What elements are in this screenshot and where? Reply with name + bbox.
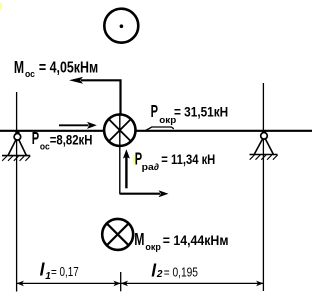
svg-text:ос: ос (25, 69, 35, 79)
svg-text:2: 2 (156, 269, 163, 280)
svg-text:= 0,17: = 0,17 (51, 264, 79, 279)
svg-text:ра∂: ра∂ (142, 162, 160, 172)
svg-text:M: M (14, 57, 24, 77)
svg-text:M: M (134, 229, 144, 249)
svg-text:P: P (151, 101, 159, 121)
svg-text:= 14,44кНм: = 14,44кНм (163, 232, 229, 248)
svg-text:=8,82кН: =8,82кН (50, 131, 93, 147)
svg-text:окр: окр (145, 242, 161, 252)
svg-text:= 4,05кНм: = 4,05кНм (39, 60, 98, 77)
svg-text:P: P (32, 128, 40, 148)
svg-text:= 11,34 кН: = 11,34 кН (161, 151, 215, 167)
svg-text:= 31,51кН: = 31,51кН (174, 104, 228, 120)
svg-text:ос: ос (40, 142, 50, 152)
svg-text:= 0,195: = 0,195 (164, 264, 198, 279)
